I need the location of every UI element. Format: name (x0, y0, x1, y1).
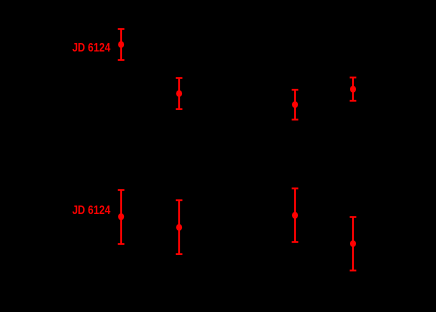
error bar 1 (top panel, point 1) (118, 29, 125, 60)
error bar 8 (bottom panel, point 4) (350, 217, 357, 271)
svg-text:JD 6124: JD 6124 (72, 40, 110, 54)
error bar 2 (top panel, point 2) (176, 78, 183, 109)
error bar 5 (bottom panel, point 1) (118, 190, 125, 244)
error bar 7 (bottom panel, point 3) (292, 188, 299, 242)
error bar 3 (top panel, point 3) (292, 90, 299, 120)
error bar 6 (bottom panel, point 2) (176, 200, 183, 254)
error bar 4 (top panel, point 4) (350, 78, 357, 101)
svg-text:JD 6124: JD 6124 (72, 203, 110, 217)
